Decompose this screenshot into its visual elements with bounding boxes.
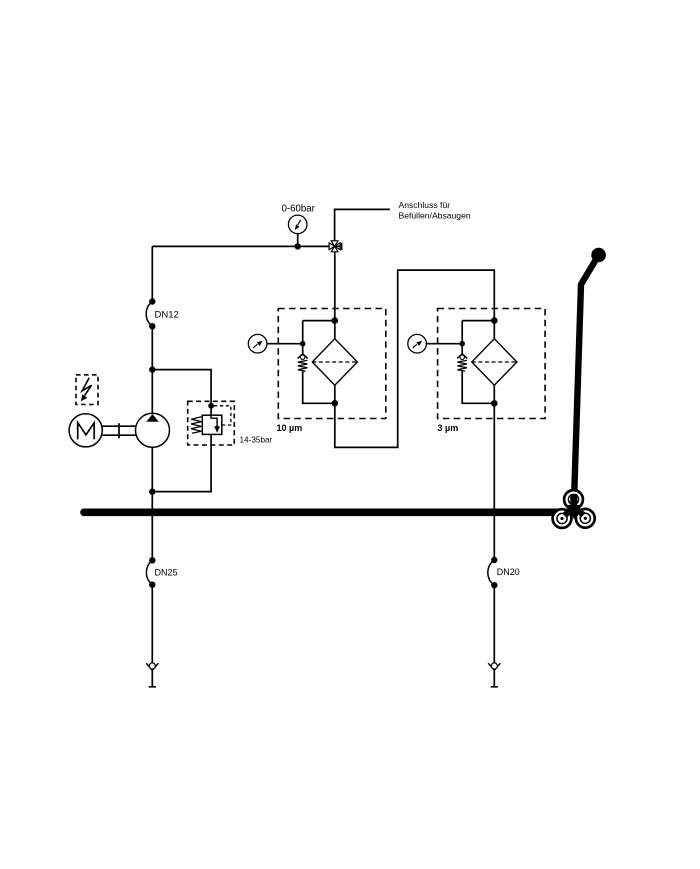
svg-text:Befüllen/Absaugen: Befüllen/Absaugen: [399, 210, 471, 220]
svg-text:DN12: DN12: [155, 309, 179, 320]
svg-text:14-35bar: 14-35bar: [240, 435, 273, 444]
svg-text:DN25: DN25: [155, 568, 178, 578]
svg-text:10 µm: 10 µm: [277, 423, 303, 433]
svg-text:0-60bar: 0-60bar: [282, 204, 316, 215]
svg-text:Anschluss für: Anschluss für: [399, 200, 451, 210]
svg-text:DN20: DN20: [497, 567, 520, 577]
svg-text:3 µm: 3 µm: [438, 423, 459, 433]
